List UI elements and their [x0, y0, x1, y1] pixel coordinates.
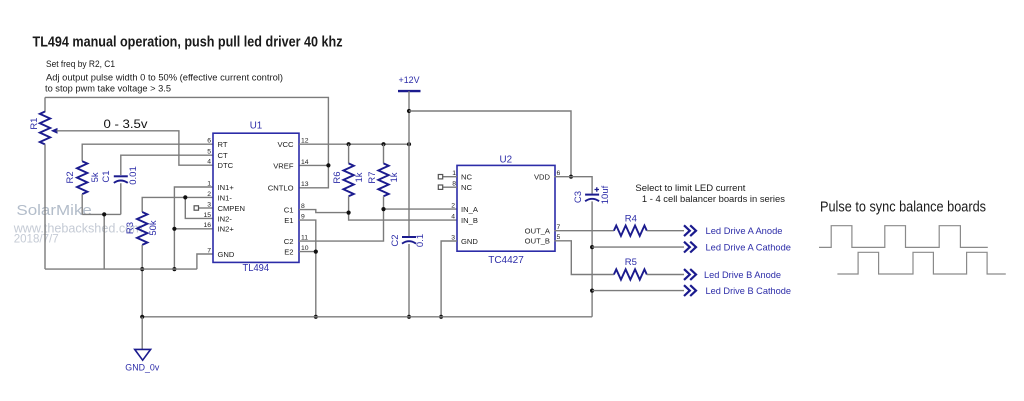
wire: U1 C2 pin 11 to R7 bottom to U2 IN_A [299, 207, 457, 241]
svg-text:R6: R6 [332, 171, 343, 183]
U2 NC pin 1 no-connect stub [438, 175, 457, 179]
svg-text:R2: R2 [65, 171, 76, 183]
svg-text:C1: C1 [101, 170, 112, 182]
wire: R1 top stub [44, 97, 46, 112]
wire: R4 to output arrow [647, 230, 684, 232]
svg-text:R5: R5 [625, 257, 637, 268]
wire: E1/E2 emitters to ground rail [299, 220, 318, 319]
resistor R2 [77, 161, 87, 194]
resistor R3 [137, 212, 147, 245]
U1 pin names [218, 140, 295, 259]
wire: R2 top to RT pin 6 [82, 144, 213, 161]
svg-text:C1: C1 [284, 206, 294, 215]
wire: C1 top to CT pin 5 [121, 155, 213, 175]
wire: R7 top stub [383, 144, 385, 163]
waveform B [837, 252, 1005, 274]
svg-text:13: 13 [301, 181, 309, 188]
wire: R2/C1 bottom jog [82, 212, 121, 269]
svg-text:1 - 4 cell balancer boards in: 1 - 4 cell balancer boards in series [642, 193, 785, 204]
svg-text:OUT_A: OUT_A [525, 227, 551, 236]
ground symbol [135, 349, 151, 360]
svg-text:VREF: VREF [273, 161, 294, 170]
wire: R1 top to VREF/CNTLO feedback rail [45, 97, 331, 187]
resistor R7 [378, 163, 388, 196]
svg-text:U2: U2 [500, 154, 513, 165]
wire: U2 GND pin 3 to ground rail [439, 241, 457, 319]
wire: lower interconnect [45, 268, 197, 270]
svg-text:IN_B: IN_B [461, 216, 478, 225]
svg-text:VCC: VCC [277, 140, 294, 149]
resistor R4 [614, 226, 647, 236]
svg-text:4: 4 [451, 214, 455, 221]
svg-text:2: 2 [451, 203, 455, 210]
svg-text:Led Drive B Anode: Led Drive B Anode [704, 270, 781, 281]
svg-text:8: 8 [452, 181, 456, 188]
wire: R3 top / IN1- pin 2 / IN2- pin 15 net [142, 195, 213, 218]
wire: VCC rail pin 12 to +12V column [299, 142, 411, 146]
CMPEN pin 3 no-connect stub [194, 206, 213, 210]
svg-text:+12V: +12V [399, 75, 421, 85]
svg-text:5k: 5k [90, 172, 101, 182]
resistor R5 [614, 269, 647, 279]
wire: cathode B line [592, 290, 684, 292]
svg-text:NC: NC [461, 173, 472, 182]
svg-text:to stop pwm take voltage > 3.5: to stop pwm take voltage > 3.5 [45, 83, 171, 94]
svg-text:GND_0v: GND_0v [125, 363, 159, 374]
svg-text:5: 5 [207, 149, 211, 156]
svg-text:0.1: 0.1 [415, 234, 426, 247]
output arrow Led Drive A Cathode [684, 242, 696, 253]
svg-text:R3: R3 [125, 222, 136, 234]
svg-text:Pulse to sync balance boards: Pulse to sync balance boards [820, 200, 986, 216]
svg-text:1: 1 [452, 170, 456, 177]
svg-text:2018/7/7: 2018/7/7 [14, 232, 59, 246]
svg-text:15: 15 [203, 212, 211, 219]
wire: +12V column [407, 91, 411, 236]
svg-text:IN2-: IN2- [218, 214, 233, 223]
capacitor C2 [402, 237, 416, 244]
resistor R1 (potentiometer) [40, 112, 58, 145]
svg-text:Adj output pulse width 0 to 50: Adj output pulse width 0 to 50% (effecti… [46, 72, 283, 83]
power +12V bar [398, 90, 421, 92]
output arrow Led Drive A Anode [684, 225, 696, 236]
svg-text:SolarMike: SolarMike [16, 203, 92, 219]
svg-text:CNTLO: CNTLO [268, 184, 294, 193]
svg-text:Led Drive B Cathode: Led Drive B Cathode [706, 286, 792, 297]
svg-text:IN2+: IN2+ [218, 225, 235, 234]
svg-text:GND: GND [218, 250, 235, 259]
output arrow Led Drive B Cathode [684, 285, 696, 296]
wire: ground rail [140, 315, 592, 319]
svg-text:R4: R4 [625, 214, 637, 225]
wire: R7 bottom [383, 196, 385, 209]
U2 pin numbers [451, 170, 560, 241]
op-amp U1 TL494 body [213, 133, 299, 262]
wire: +12V branch to U2 VDD [409, 111, 573, 179]
svg-text:0 - 3.5v: 0 - 3.5v [104, 117, 149, 131]
wire: C2 bottom to ground rail [407, 244, 411, 319]
resistor R6 [343, 163, 353, 196]
svg-text:OUT_B: OUT_B [525, 237, 550, 246]
wire: R6 bottom [348, 196, 350, 212]
wire: R5 to output arrow [647, 274, 684, 276]
capacitor C1 [114, 176, 128, 183]
wire: IN1+ pin 1 / IN2+ pin 16 tie [172, 187, 213, 271]
svg-text:3: 3 [207, 201, 211, 208]
wire: C3 bottom / cathode rail [590, 201, 594, 316]
svg-text:6: 6 [207, 138, 211, 145]
wire: ground symbol stem [141, 317, 143, 349]
svg-text:Led Drive A Anode: Led Drive A Anode [706, 226, 783, 237]
svg-text:E2: E2 [284, 248, 293, 257]
wire: R1 bottom to lower interconnect [44, 144, 46, 269]
wire: R1 wiper to DTC pin 4 [57, 131, 214, 165]
output arrow Led Drive B Anode [684, 269, 696, 280]
U2 pin names [461, 173, 551, 246]
wire: U1 GND pin 7 [197, 254, 213, 269]
wire: R2 bottom [81, 194, 83, 214]
svg-text:CMPEN: CMPEN [218, 204, 245, 213]
svg-text:R7: R7 [367, 171, 378, 183]
svg-text:R1: R1 [29, 118, 40, 130]
svg-text:VDD: VDD [534, 173, 551, 182]
svg-text:2: 2 [207, 191, 211, 198]
svg-text:C2: C2 [284, 237, 294, 246]
svg-text:C3: C3 [573, 191, 584, 203]
wire: OUT_B pin 5 to R5 [555, 241, 614, 275]
C3 plus sign [595, 187, 600, 192]
svg-text:NC: NC [461, 183, 472, 192]
IC U2 TC4427 body [457, 165, 555, 251]
U2 NC pin 8 no-connect stub [438, 185, 457, 189]
wire: C1 bottom [120, 183, 122, 214]
svg-text:Set freq by R2, C1: Set freq by R2, C1 [46, 58, 115, 69]
svg-text:50k: 50k [148, 220, 159, 236]
svg-text:Select to limit LED current: Select to limit LED current [635, 182, 745, 193]
svg-text:IN_A: IN_A [461, 205, 479, 214]
svg-text:DTC: DTC [218, 161, 234, 170]
svg-text:TC4427: TC4427 [488, 255, 524, 266]
svg-text:1: 1 [207, 180, 211, 187]
svg-text:7: 7 [207, 247, 211, 254]
svg-text:IN1-: IN1- [218, 193, 233, 202]
wire: R6 top stub [348, 144, 350, 163]
wire: U1 C1 pin 8 to R6 bottom to U2 IN_B [299, 210, 457, 221]
svg-text:1k: 1k [389, 172, 400, 182]
wire: VDD to C3 top [555, 177, 593, 194]
wire: cathode A line [592, 246, 684, 248]
svg-text:4: 4 [207, 159, 211, 166]
wire: OUT_A pin 7 to R4 [555, 230, 614, 232]
svg-text:GND: GND [461, 237, 478, 246]
svg-text:1k: 1k [354, 172, 365, 182]
U1 pin numbers [203, 138, 308, 255]
svg-text:TL494 manual operation, push p: TL494 manual operation, push pull led dr… [33, 35, 343, 51]
svg-text:14: 14 [301, 159, 309, 166]
svg-text:C2: C2 [390, 234, 401, 246]
svg-text:RT: RT [218, 140, 228, 149]
svg-text:CT: CT [218, 151, 228, 160]
svg-text:TL494: TL494 [243, 263, 270, 274]
svg-text:IN1+: IN1+ [218, 183, 235, 192]
capacitor C3 [585, 195, 599, 202]
svg-text:16: 16 [203, 222, 211, 229]
svg-text:Led Drive A Cathode: Led Drive A Cathode [706, 243, 792, 254]
wire: R3 bottom to ground rail [140, 245, 144, 317]
svg-text:0.01: 0.01 [128, 166, 139, 185]
waveform A [819, 226, 988, 248]
svg-text:E1: E1 [284, 216, 293, 225]
svg-text:10uf: 10uf [600, 185, 611, 204]
svg-text:U1: U1 [250, 121, 263, 132]
